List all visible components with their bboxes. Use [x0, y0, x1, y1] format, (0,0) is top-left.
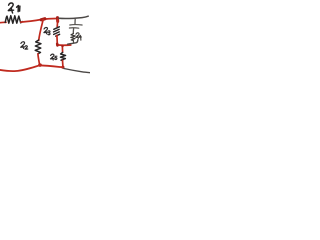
- wire: top red wire R1 to node B: [21, 18, 59, 22]
- label R1: [8, 3, 20, 13]
- wire: branch 1 red vertical upper: [39, 20, 44, 41]
- capacitor C1 top plate: [70, 24, 82, 26]
- label R2: [21, 42, 28, 49]
- resistor R3 hatches: [54, 27, 60, 36]
- node E junction blob: [61, 66, 64, 69]
- label R4: [76, 33, 82, 40]
- wire: black horizontal at node D with end hook: [68, 40, 78, 45]
- wire: top black wire to right edge: [59, 16, 88, 18]
- resistor R1 zigzag: [5, 16, 22, 24]
- node C junction blob bottom of branch 1: [38, 63, 42, 66]
- resistor R2 zigzag: [35, 40, 41, 54]
- wire: red horizontal at node D: [57, 44, 71, 46]
- wire: bottom black line to right edge: [64, 69, 91, 73]
- capacitor C1 stub from top wire: [74, 19, 76, 24]
- wire: post below capacitor: [72, 29, 74, 34]
- resistor R4 zigzag: [71, 34, 75, 41]
- wire: branch 2 red vertical lower: [56, 35, 58, 44]
- resistor R5 zigzag: [60, 52, 65, 60]
- wire: left red lead into R1: [0, 21, 6, 24]
- junction blob R5 top: [61, 45, 64, 47]
- wire: branch 1 red vertical lower: [38, 54, 40, 65]
- capacitor C1 bottom plate: [69, 27, 78, 29]
- label R5: [51, 54, 57, 60]
- wire: R5 red vertical lower: [62, 61, 65, 68]
- node A junction blob: [41, 19, 45, 20]
- node D corner blob: [56, 44, 59, 46]
- wire: R5 red drop from node D: [61, 46, 63, 53]
- wire: branch 2 red vertical upper: [56, 19, 59, 27]
- node B junction blob: [56, 18, 59, 22]
- wire: bottom red wire: [0, 65, 63, 71]
- wire: R4 stub to node D line: [72, 41, 74, 43]
- label R3: [44, 27, 50, 34]
